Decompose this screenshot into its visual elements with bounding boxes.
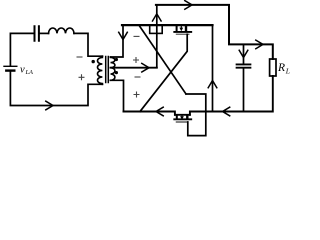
svg-text:LA: LA xyxy=(25,69,34,76)
svg-text:R: R xyxy=(277,62,285,74)
svg-text:v: v xyxy=(20,64,25,75)
svg-text:L: L xyxy=(285,67,290,76)
